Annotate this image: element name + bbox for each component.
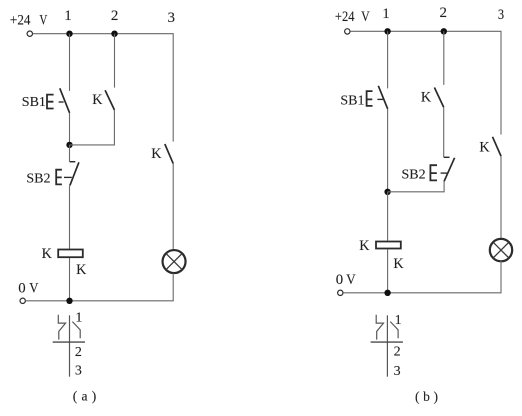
label K coil left (a) <box>42 246 53 262</box>
wire column3 mid (a) <box>172 164 174 251</box>
lamp HL (a) <box>163 250 186 273</box>
relay contact K column3 (a) <box>165 144 173 164</box>
label SB2 (b) <box>402 168 426 183</box>
wire column3 mid (b) <box>500 156 502 239</box>
svg-text:+24: +24 <box>335 9 355 25</box>
relay contact K column3 (b) <box>493 137 502 156</box>
label K coil below (b) <box>393 256 404 272</box>
svg-text:1: 1 <box>75 310 82 325</box>
svg-text:SB1: SB1 <box>340 93 364 108</box>
junction dot col1 (a) <box>66 142 72 148</box>
wire column2 + crossover (b) <box>388 31 445 192</box>
svg-text:2: 2 <box>440 5 448 21</box>
wire column1 top (b) <box>387 31 389 88</box>
svg-text:K: K <box>393 256 404 272</box>
wire coil to bottom rail (b) <box>387 249 389 292</box>
label K column3 (b) <box>479 140 490 156</box>
label K column2 (a) <box>92 92 103 108</box>
svg-text:SB2: SB2 <box>402 168 426 183</box>
legend pin 1 label (b) <box>395 313 402 328</box>
svg-text:2: 2 <box>394 345 401 360</box>
svg-text:K: K <box>92 92 103 108</box>
node 1 junction dot (b) <box>384 28 390 34</box>
label K coil left (b) <box>359 238 370 254</box>
label 0 V (b) <box>336 272 356 288</box>
label +24 V (b) <box>335 9 370 25</box>
svg-text:K: K <box>479 140 490 156</box>
svg-text:K: K <box>76 262 87 278</box>
terminal +24V (b) <box>345 29 350 34</box>
label +24 V (a) <box>10 12 48 28</box>
svg-text:3: 3 <box>498 7 504 23</box>
node 2 junction dot (b) <box>441 28 447 34</box>
svg-text:1: 1 <box>395 313 402 328</box>
label SB2 (a) <box>26 172 50 187</box>
node 2 label (b) <box>440 5 448 21</box>
svg-text:( b ): ( b ) <box>415 389 438 404</box>
wire bottom rail to lamp (a) <box>26 273 174 301</box>
changeover legend crossbar (b) <box>371 341 403 343</box>
svg-text:V: V <box>39 12 47 28</box>
node 2 label (a) <box>111 8 119 24</box>
pushbutton SB2 NC contact (a) <box>56 162 79 186</box>
svg-text:2: 2 <box>111 8 119 24</box>
node 1 label (a) <box>64 8 72 24</box>
svg-text:K: K <box>421 89 432 105</box>
wire column2 + crossover (a) <box>70 34 115 145</box>
svg-text:V: V <box>29 281 38 297</box>
relay coil K rectangle (a) <box>58 250 83 258</box>
junction dot bottom rail (a) <box>66 298 72 304</box>
label 0 V (a) <box>18 281 38 297</box>
changeover legend NC blade (a) <box>58 315 65 340</box>
relay contact K column2 (a) <box>105 90 114 110</box>
svg-text:0: 0 <box>18 281 25 297</box>
legend pin 2 label (a) <box>75 345 82 360</box>
label SB1 (b) <box>340 93 364 108</box>
legend pin 2 label (b) <box>394 345 401 360</box>
changeover contact legend pole line (a) <box>69 315 71 376</box>
svg-text:1: 1 <box>382 6 390 22</box>
svg-text:3: 3 <box>168 10 176 26</box>
wire column1 lower (a) <box>69 145 71 249</box>
svg-text:V: V <box>361 9 370 25</box>
wire column1 mid (b) <box>387 109 389 192</box>
node 3 label (b) <box>498 7 504 23</box>
label K column2 (b) <box>421 89 432 105</box>
label K column3 (a) <box>151 146 162 162</box>
changeover legend NO blade (b) <box>390 322 398 339</box>
node 3 label (a) <box>168 10 176 26</box>
wire column1 to coil (b) <box>387 192 389 241</box>
lamp HL (b) <box>490 239 512 261</box>
svg-text:( a ): ( a ) <box>73 389 96 404</box>
svg-text:K: K <box>359 238 370 254</box>
legend pin 3 label (a) <box>75 364 82 379</box>
changeover contact legend pole line (b) <box>386 315 388 376</box>
svg-text:SB2: SB2 <box>26 172 50 187</box>
wire column1 mid (a) <box>69 113 71 145</box>
node 1 label (b) <box>382 6 390 22</box>
svg-text:2: 2 <box>75 345 82 360</box>
wire column1 top (a) <box>69 34 71 91</box>
svg-text:+24: +24 <box>10 12 31 28</box>
caption ( a ) <box>73 389 96 404</box>
svg-text:V: V <box>346 272 356 288</box>
svg-text:3: 3 <box>394 364 401 379</box>
pushbutton SB1 NO contact (a) <box>47 88 70 113</box>
terminal 0V (b) <box>338 290 343 295</box>
label K coil below (a) <box>76 262 87 278</box>
changeover legend crossbar (a) <box>53 341 85 343</box>
label SB1 (a) <box>22 95 46 110</box>
wire top rail to column3 (a) <box>33 34 174 142</box>
wire top rail to column3 (b) <box>350 31 501 134</box>
node 2 junction dot (a) <box>111 31 117 37</box>
node 1 junction dot (a) <box>66 31 72 37</box>
changeover legend NC blade (b) <box>376 315 383 340</box>
svg-text:K: K <box>42 246 53 262</box>
legend pin 3 label (b) <box>394 364 401 379</box>
legend pin 1 label (a) <box>75 310 82 325</box>
svg-text:1: 1 <box>64 8 72 24</box>
svg-text:0: 0 <box>336 272 343 288</box>
wire bottom rail to lamp (b) <box>343 261 501 293</box>
svg-text:SB1: SB1 <box>22 95 46 110</box>
pushbutton SB1 NO contact (b) <box>367 86 388 109</box>
svg-text:3: 3 <box>75 364 82 379</box>
terminal 0V (a) <box>20 298 25 303</box>
junction dot bottom rail (b) <box>384 290 390 296</box>
terminal +24V (a) <box>27 31 32 36</box>
pushbutton SB2 NC contact (b) <box>430 157 454 181</box>
wire coil to bottom rail (a) <box>69 258 71 301</box>
caption ( b ) <box>415 389 438 404</box>
changeover legend NO blade (a) <box>72 322 80 339</box>
svg-text:K: K <box>151 146 162 162</box>
relay contact K column2 (b) <box>434 88 443 108</box>
relay coil K rectangle (b) <box>376 242 401 249</box>
junction dot col1 (b) <box>384 189 390 195</box>
